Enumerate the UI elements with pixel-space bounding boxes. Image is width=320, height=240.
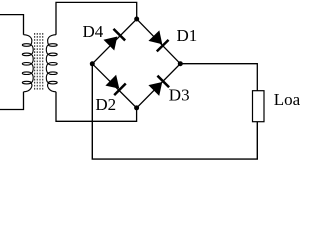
svg-text:D1: D1	[177, 26, 198, 45]
svg-text:D2: D2	[95, 95, 116, 114]
svg-text:D4: D4	[83, 22, 104, 41]
svg-text:D3: D3	[169, 86, 190, 105]
svg-text:Load: Load	[274, 90, 300, 109]
